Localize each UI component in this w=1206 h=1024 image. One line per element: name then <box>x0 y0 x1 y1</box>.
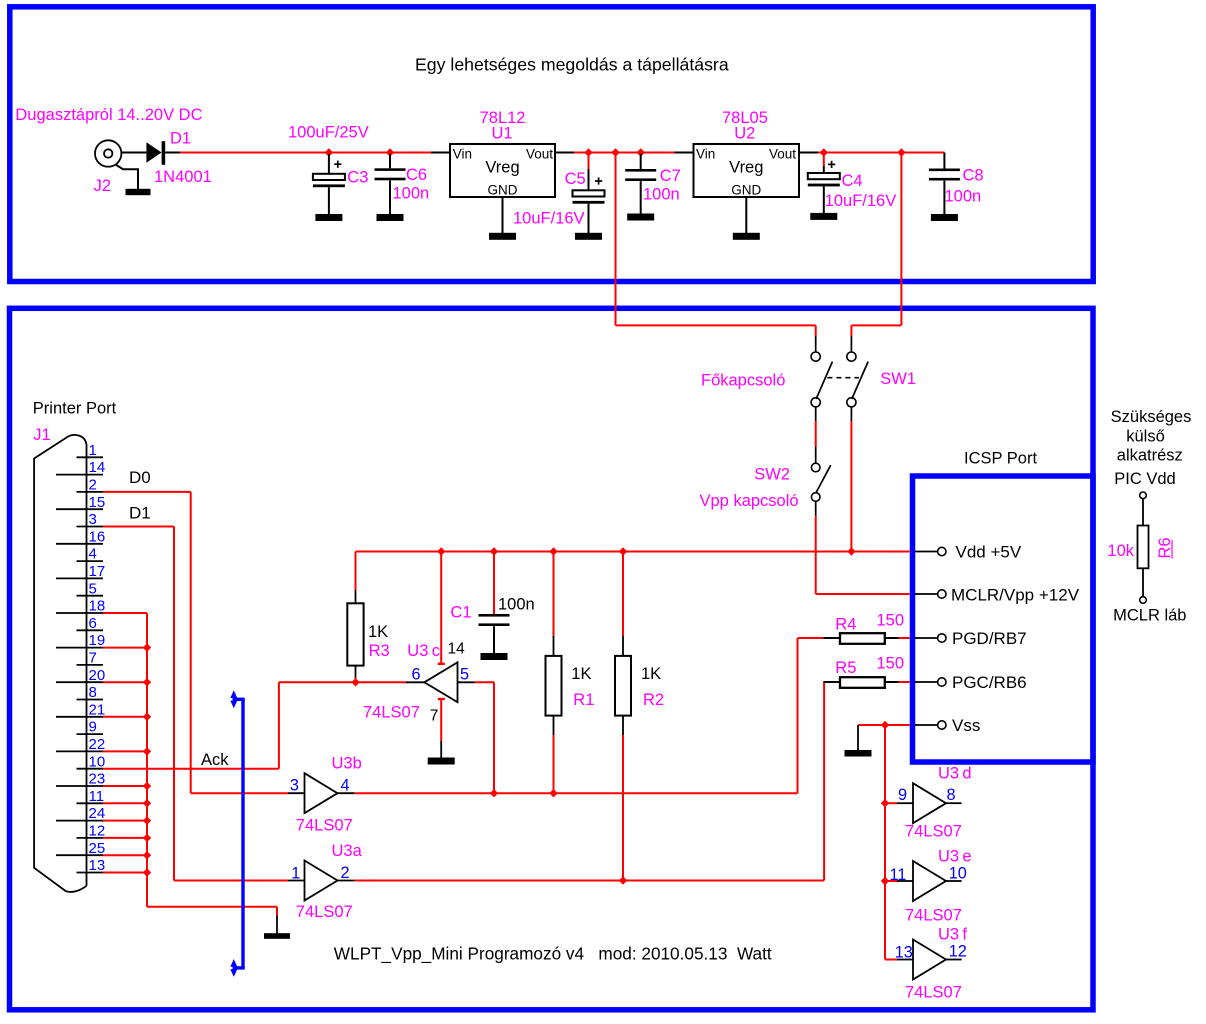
svg-text:74LS07: 74LS07 <box>905 823 962 841</box>
svg-text:R1: R1 <box>573 691 594 709</box>
svg-text:1K: 1K <box>641 665 661 683</box>
svg-text:C4: C4 <box>842 172 863 190</box>
svg-text:külső: külső <box>1126 428 1165 446</box>
svg-text:100uF/25V: 100uF/25V <box>288 124 369 142</box>
svg-text:C8: C8 <box>963 167 984 185</box>
svg-text:24: 24 <box>89 805 106 822</box>
svg-text:R6: R6 <box>1156 537 1174 558</box>
svg-text:J1: J1 <box>33 426 50 444</box>
svg-text:10: 10 <box>89 753 106 770</box>
svg-text:U3 f: U3 f <box>938 926 967 944</box>
svg-text:C3: C3 <box>347 169 368 187</box>
svg-text:16: 16 <box>89 528 106 545</box>
svg-text:3: 3 <box>89 511 97 528</box>
svg-text:ICSP Port: ICSP Port <box>964 450 1037 468</box>
svg-text:10: 10 <box>949 865 967 883</box>
svg-text:17: 17 <box>89 563 106 580</box>
svg-text:U1: U1 <box>492 125 513 143</box>
svg-text:4: 4 <box>341 777 350 795</box>
svg-text:D0: D0 <box>129 468 151 487</box>
svg-text:U3 d: U3 d <box>938 765 972 783</box>
svg-text:20: 20 <box>89 667 106 684</box>
svg-text:Főkapcsoló: Főkapcsoló <box>701 372 785 390</box>
svg-text:PGD/RB7: PGD/RB7 <box>952 629 1027 648</box>
svg-text:5: 5 <box>89 580 97 597</box>
svg-text:Vout: Vout <box>526 147 553 162</box>
svg-text:11: 11 <box>89 788 105 805</box>
svg-text:D1: D1 <box>170 130 191 148</box>
svg-text:13: 13 <box>895 944 913 962</box>
svg-text:1: 1 <box>89 442 97 459</box>
svg-text:150: 150 <box>877 612 905 630</box>
svg-text:C5: C5 <box>565 170 586 188</box>
svg-text:100n: 100n <box>498 596 535 614</box>
svg-text:6: 6 <box>412 665 421 683</box>
svg-text:10uF/16V: 10uF/16V <box>825 192 897 210</box>
svg-text:18: 18 <box>89 598 106 615</box>
svg-text:8: 8 <box>947 786 956 804</box>
svg-text:12: 12 <box>949 943 967 961</box>
svg-text:Printer Port: Printer Port <box>33 400 117 418</box>
svg-text:C7: C7 <box>660 167 681 185</box>
svg-text:Vpp kapcsoló: Vpp kapcsoló <box>700 492 799 510</box>
svg-text:1K: 1K <box>368 623 388 641</box>
svg-text:6: 6 <box>89 615 97 632</box>
svg-text:R5: R5 <box>835 659 856 677</box>
svg-text:100n: 100n <box>643 186 680 204</box>
svg-text:21: 21 <box>89 701 106 718</box>
svg-text:alkatrész: alkatrész <box>1117 447 1183 465</box>
svg-text:SW2: SW2 <box>754 466 790 484</box>
svg-text:Vreg: Vreg <box>485 159 519 177</box>
svg-text:1: 1 <box>291 865 300 883</box>
svg-text:PGC/RB6: PGC/RB6 <box>952 673 1027 692</box>
svg-text:150: 150 <box>877 655 905 673</box>
svg-text:74LS07: 74LS07 <box>363 704 420 722</box>
svg-text:9: 9 <box>898 786 907 804</box>
svg-text:25: 25 <box>89 840 106 857</box>
svg-text:5: 5 <box>460 665 469 683</box>
svg-text:10uF/16V: 10uF/16V <box>513 210 585 228</box>
svg-text:U2: U2 <box>734 125 755 143</box>
svg-text:3: 3 <box>290 777 299 795</box>
svg-text:11: 11 <box>890 866 907 884</box>
svg-text:1K: 1K <box>571 665 591 683</box>
svg-text:U3 c: U3 c <box>407 642 440 660</box>
svg-text:13: 13 <box>89 857 106 874</box>
svg-text:22: 22 <box>89 736 106 753</box>
svg-text:GND: GND <box>731 183 761 198</box>
svg-text:74LS07: 74LS07 <box>905 984 962 1002</box>
svg-text:D1: D1 <box>129 504 151 523</box>
svg-text:7: 7 <box>89 650 97 667</box>
svg-text:J2: J2 <box>94 177 111 195</box>
svg-text:100n: 100n <box>945 188 982 206</box>
svg-text:8: 8 <box>89 684 97 701</box>
svg-text:Egy lehetséges megoldás a tápe: Egy lehetséges megoldás a tápellátásra <box>415 54 729 74</box>
svg-text:14: 14 <box>89 459 106 476</box>
svg-text:15: 15 <box>89 494 106 511</box>
svg-text:Vin: Vin <box>453 147 472 162</box>
svg-text:Vout: Vout <box>769 147 796 162</box>
svg-text:7: 7 <box>430 708 439 725</box>
svg-text:19: 19 <box>89 632 106 649</box>
svg-text:2: 2 <box>341 864 350 882</box>
svg-text:12: 12 <box>89 823 106 840</box>
svg-text:MCLR/Vpp +12V: MCLR/Vpp +12V <box>951 586 1080 605</box>
svg-text:Dugasztápról 14..20V DC: Dugasztápról 14..20V DC <box>15 106 202 124</box>
svg-text:R4: R4 <box>835 616 856 634</box>
svg-text:U3b: U3b <box>332 754 362 772</box>
svg-text:SW1: SW1 <box>880 370 916 388</box>
svg-text:PIC Vdd: PIC Vdd <box>1114 470 1175 488</box>
svg-text:Vreg: Vreg <box>729 159 763 177</box>
svg-text:U3a: U3a <box>332 842 363 860</box>
svg-text:R2: R2 <box>643 691 664 709</box>
svg-text:74LS07: 74LS07 <box>296 903 353 921</box>
svg-text:Ack: Ack <box>201 751 229 769</box>
svg-text:GND: GND <box>488 183 518 198</box>
svg-text:74LS07: 74LS07 <box>296 817 353 835</box>
svg-text:R3: R3 <box>369 642 390 660</box>
svg-text:MCLR láb: MCLR láb <box>1113 607 1186 625</box>
svg-text:74LS07: 74LS07 <box>905 907 962 925</box>
svg-text:23: 23 <box>89 771 106 788</box>
svg-text:C6: C6 <box>406 166 427 184</box>
svg-text:2: 2 <box>89 477 97 494</box>
svg-text:4: 4 <box>89 546 97 563</box>
svg-text:C1: C1 <box>450 604 471 622</box>
svg-text:9: 9 <box>89 719 97 736</box>
svg-text:WLPT_Vpp_Mini Programozó v4: WLPT_Vpp_Mini Programozó v4 mod: 2010.05… <box>334 944 772 964</box>
svg-text:100n: 100n <box>393 185 430 203</box>
svg-text:Szükséges: Szükséges <box>1111 408 1192 426</box>
svg-text:Vin: Vin <box>696 147 715 162</box>
svg-text:Vdd +5V: Vdd +5V <box>956 543 1022 562</box>
svg-text:Vss: Vss <box>952 716 980 735</box>
svg-text:U3 e: U3 e <box>938 848 972 866</box>
svg-text:10k: 10k <box>1107 542 1134 560</box>
svg-text:1N4001: 1N4001 <box>154 168 212 186</box>
svg-text:14: 14 <box>448 641 466 658</box>
